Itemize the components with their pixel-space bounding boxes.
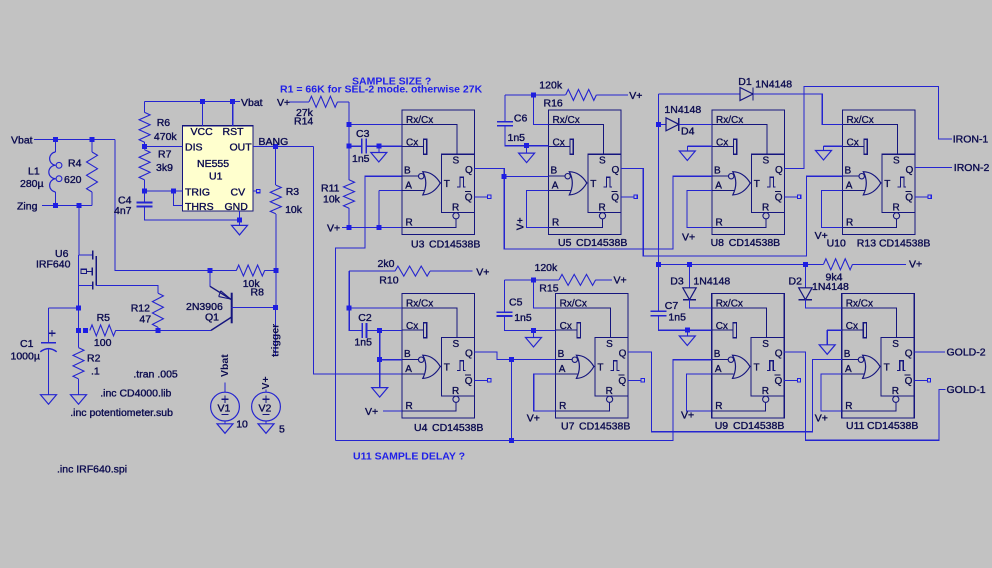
svg-text:V+: V+ [682, 232, 695, 244]
wire U3 RxCx pin [349, 123, 402, 125]
wire U6 source stub [79, 284, 93, 286]
ground (U11 Cx) [827, 329, 842, 331]
svg-text:trigger: trigger [270, 324, 282, 357]
diode D4 1N4148 [656, 122, 661, 127]
svg-text:U7: U7 [561, 421, 575, 433]
wire U3 A to V+ [378, 190, 380, 227]
svg-text:V+: V+ [909, 259, 922, 271]
svg-text:C6: C6 [514, 113, 528, 125]
svg-text:R14: R14 [294, 116, 313, 128]
ground (555 GND) [232, 225, 248, 235]
capacitor C5 1n5 [504, 279, 533, 281]
wire U3 B input route [335, 176, 402, 440]
wire Zing node [42, 205, 92, 207]
wire Vbat top rail [145, 101, 240, 103]
wire rail U4.Q to U9.B [335, 360, 711, 441]
inductor L1 280u [55, 140, 57, 153]
ground (C7) [679, 336, 695, 346]
wire V2 top stub [265, 390, 267, 393]
wire U6 source down [78, 285, 80, 330]
capacitor C2 1n5 [349, 308, 362, 330]
svg-text:280µ: 280µ [20, 178, 44, 190]
wire U9 Cx pin [687, 329, 711, 331]
svg-text:Vbat: Vbat [11, 135, 33, 147]
wire U3.Q to U5.B and U8.B [475, 169, 713, 249]
capacitor C4 4n7 [144, 191, 146, 202]
wire to Q1 collector [158, 329, 211, 331]
wire U10 A/R loop (V+) [822, 190, 843, 227]
svg-text:V+: V+ [476, 267, 489, 279]
node junction R15/C5/RxCx U7 [531, 277, 536, 282]
wire C4 bottom to GND pin [145, 207, 240, 221]
ground (R2) [71, 395, 87, 405]
svg-text:GOLD-2: GOLD-2 [947, 347, 986, 359]
svg-text:U1: U1 [209, 171, 223, 183]
node junction GND [237, 218, 242, 223]
svg-text:47: 47 [139, 314, 151, 326]
svg-text:.1: .1 [91, 366, 100, 378]
svg-text:V+: V+ [327, 223, 340, 235]
svg-text:100: 100 [94, 337, 112, 349]
wire BANG to U4.A [314, 146, 403, 374]
svg-text:R15: R15 [539, 283, 558, 295]
svg-text:D1: D1 [738, 76, 752, 88]
wire R14 to V+ rail vertical [348, 102, 350, 180]
resistor R11 10k [344, 180, 355, 208]
node junction R16/C6/RxCx U5 [531, 92, 536, 97]
wire D1 to U10 RxCx [753, 94, 843, 124]
diode D1 1N4148 [659, 93, 741, 95]
resistor R7 3k9 [144, 147, 146, 150]
capacitor C3 1n5 [347, 144, 352, 149]
diode D2 1N4148 [803, 262, 808, 267]
svg-text:CD14538B: CD14538B [729, 237, 780, 249]
svg-text:BANG: BANG [259, 136, 289, 148]
node junction Vbat/L1 [53, 137, 58, 142]
ground (U4 B node) [372, 388, 388, 398]
svg-text:CD14538B: CD14538B [432, 422, 483, 434]
svg-text:THRS: THRS [185, 201, 214, 213]
svg-text:.inc potentiometer.sub: .inc potentiometer.sub [70, 407, 173, 419]
ground (V2) [258, 424, 274, 434]
svg-text:4n7: 4n7 [114, 205, 132, 217]
wire Zing to U6 drain [79, 206, 92, 255]
pin CV stub [253, 190, 257, 192]
svg-text:CD14538B: CD14538B [733, 420, 784, 432]
node junction DIS/R6/R7 [142, 144, 147, 149]
ground (C6) [519, 153, 535, 163]
svg-text:R5: R5 [97, 312, 111, 324]
svg-text:2k0: 2k0 [378, 258, 395, 270]
ground (U10 Cx) [824, 145, 843, 147]
wire U5.Q to U10.B [621, 169, 843, 256]
svg-text:V+: V+ [260, 376, 272, 389]
svg-text:U10: U10 [827, 238, 846, 250]
svg-text:V+: V+ [527, 413, 540, 425]
svg-text:V+: V+ [614, 275, 627, 287]
svg-text:1N4148: 1N4148 [812, 281, 849, 293]
svg-text:NE555: NE555 [197, 158, 229, 170]
resistor R4 620 [91, 140, 93, 153]
svg-text:V+: V+ [681, 410, 694, 422]
wire U3 Cx pin [379, 145, 402, 147]
svg-text:R4: R4 [68, 158, 82, 170]
IC U1 NE555 timer [183, 126, 254, 211]
node junction R8/R3/trigger [274, 268, 279, 273]
ground (V1) [217, 424, 233, 434]
svg-text:3k9: 3k9 [156, 162, 173, 174]
wire U5 A/R loop (V+) [526, 190, 548, 227]
node junction C2/Cx/B U4 [377, 328, 382, 333]
monostable U10 CD14538B (R13) [843, 110, 932, 235]
node junction BANG/R3 [273, 144, 278, 149]
svg-text:CD14538B: CD14538B [579, 421, 630, 433]
node junction RxCx U3 [347, 122, 352, 127]
svg-text:IRF640: IRF640 [36, 259, 71, 271]
wire diode-common net vertical [658, 94, 660, 264]
wire C2 node to gnd [379, 330, 381, 387]
svg-text:V+: V+ [815, 230, 828, 242]
wire U3 A pin [379, 189, 402, 191]
svg-text:DIS: DIS [185, 142, 203, 154]
monostable U8 CD14538B [712, 110, 801, 235]
monostable U5 CD14538B [549, 110, 638, 235]
wire U6 gate to R12 [96, 285, 158, 293]
svg-text:Vbat: Vbat [219, 354, 231, 377]
node junction RST [230, 99, 235, 104]
svg-text:C1: C1 [20, 338, 34, 350]
wire V+ stub U4.R [383, 410, 402, 412]
wire RST pin [232, 102, 234, 126]
svg-text:1N4148: 1N4148 [693, 276, 730, 288]
svg-text:C3: C3 [356, 128, 370, 140]
node junction VCC [200, 99, 205, 104]
voltage source V1 (Vbat, 10V) [211, 392, 240, 421]
svg-text:R2: R2 [87, 353, 101, 365]
svg-text:10k: 10k [285, 204, 303, 216]
wire U6 left rail [78, 255, 80, 286]
ground (C5) [526, 338, 542, 348]
svg-text:R13 CD14538B: R13 CD14538B [857, 238, 931, 250]
wire to C1 [49, 307, 79, 309]
svg-text:GOLD-1: GOLD-1 [947, 384, 986, 396]
capacitor C1 1000u [48, 308, 50, 343]
svg-text:R8: R8 [251, 287, 265, 299]
svg-text:1n5: 1n5 [514, 312, 532, 324]
svg-text:V+: V+ [365, 406, 378, 418]
svg-text:V1: V1 [218, 403, 231, 415]
capacitor C6 1n5 [505, 94, 534, 96]
svg-text:U8: U8 [711, 237, 725, 249]
svg-text:R6: R6 [157, 117, 171, 129]
svg-text:RST: RST [223, 126, 245, 138]
wire U11.Q to GOLD-2 [914, 351, 945, 353]
svg-text:R16: R16 [544, 97, 563, 109]
wire Vbat to Q1 emitter / R8 [115, 140, 210, 271]
node junction TRIG/R7/C4 [142, 189, 147, 194]
svg-text:VCC: VCC [191, 126, 214, 138]
wire U8 A/R loop (V+) [687, 190, 712, 227]
svg-text:10: 10 [236, 419, 248, 431]
wire U9.Q to GOLD-1 [784, 352, 945, 440]
svg-text:1n5: 1n5 [354, 337, 372, 349]
wire U11 A/R loop (V+) [821, 374, 842, 411]
wire OUT / BANG net [253, 145, 314, 147]
ground (C3) [371, 153, 387, 163]
node junction C7/gnd/Cx U9 [685, 328, 690, 333]
resistor R8 10k [208, 268, 213, 273]
svg-text:5: 5 [279, 424, 285, 436]
resistor R14 27k [289, 101, 309, 103]
monostable U3 CD14538B [402, 110, 491, 235]
svg-text:1N4148: 1N4148 [664, 104, 701, 116]
wire U7 Cx pin [534, 329, 556, 331]
svg-text:D4: D4 [681, 126, 695, 138]
svg-text:CD14538B: CD14538B [576, 237, 627, 249]
svg-text:1N4148: 1N4148 [755, 79, 792, 91]
svg-text:R7: R7 [158, 149, 172, 161]
svg-text:Q1: Q1 [205, 312, 219, 324]
svg-text:.inc IRF640.spi: .inc IRF640.spi [57, 464, 127, 476]
svg-text:V2: V2 [259, 403, 272, 415]
wire trigger node vertical [275, 271, 277, 308]
wire V1 top stub [224, 383, 226, 393]
node junction source/C1 [76, 306, 81, 311]
svg-text:620: 620 [64, 174, 82, 186]
resistor R13? no: resistor 9k4 [824, 259, 853, 270]
resistor R10 2k0 [348, 271, 350, 308]
svg-text:Zing: Zing [17, 201, 38, 213]
wire VCC pin [202, 102, 204, 126]
wire drop to rail [510, 360, 512, 441]
svg-text:1n5: 1n5 [668, 312, 686, 324]
wire U5 RxCx pin [534, 95, 549, 124]
wire U10.Q to IRON-2 [915, 167, 952, 169]
svg-text:1n5: 1n5 [352, 153, 370, 165]
monostable U7 CD14538B [556, 294, 645, 419]
node junction R12/R5/collector [155, 328, 160, 333]
wire U4 RxCx pin [349, 307, 402, 309]
svg-text:GND: GND [225, 201, 249, 213]
svg-text:120k: 120k [535, 262, 559, 274]
svg-text:IRON-2: IRON-2 [954, 162, 990, 174]
svg-text:D2: D2 [789, 276, 803, 288]
wire U4 Cx pin [380, 329, 402, 331]
wire U7 RxCx pin [534, 280, 556, 308]
wire U5 Cx pin [527, 145, 549, 147]
svg-text:CD14538B: CD14538B [867, 420, 918, 432]
svg-text:R3: R3 [286, 186, 300, 198]
monostable U9 CD14538B [712, 294, 801, 419]
wire THRS pin [174, 191, 183, 206]
wire V+ rail U3 [342, 227, 402, 229]
wire R5 to R12/collector [116, 329, 158, 331]
wire DIS pin [145, 146, 183, 148]
node junction rail [509, 438, 514, 443]
svg-text:V+: V+ [277, 97, 290, 109]
node junction C6/gnd/Cx U5 [524, 143, 529, 148]
resistor R6 470k [144, 102, 146, 113]
diode D3 1N4148 [687, 262, 692, 267]
svg-text:R1 = 66K for SEL-2 mode. other: R1 = 66K for SEL-2 mode. otherwise 27K [280, 84, 483, 96]
node junction source/R5/R2 [76, 328, 81, 333]
wire common rail [659, 263, 824, 265]
resistor R5 100 [90, 325, 116, 336]
node junction U4.B [377, 357, 382, 362]
svg-text:L1: L1 [28, 166, 40, 178]
svg-text:V+: V+ [629, 90, 642, 102]
wire trigger stub + rotated label [275, 308, 277, 356]
svg-text:R10: R10 [379, 275, 398, 287]
node junction Vbat/R4 [90, 137, 95, 142]
wire U7 A/R loop (V+) [534, 374, 556, 411]
svg-text:U5: U5 [558, 237, 572, 249]
svg-text:Vbat: Vbat [241, 97, 263, 109]
wire Vbat rail left [34, 139, 115, 141]
resistor R2 .1 [73, 348, 84, 379]
wire TRIG pin [145, 190, 183, 192]
svg-text:U9: U9 [715, 420, 729, 432]
node junction U3.Q fanout [502, 174, 507, 179]
node junction C3/gnd/Cx [376, 144, 381, 149]
capacitor C7 1n5 [658, 264, 660, 311]
wire emitter drop [209, 271, 211, 287]
resistor R3 10k [275, 146, 277, 185]
monostable U4 CD14538B [402, 294, 491, 419]
wire U7.Q to U11.B [628, 352, 842, 432]
wire U8.Q to IRON-1 [785, 87, 953, 169]
svg-text:1n5: 1n5 [508, 132, 526, 144]
node junction TRIG/THRS [171, 189, 176, 194]
svg-text:C2: C2 [358, 312, 372, 324]
svg-text:V+: V+ [515, 217, 527, 230]
wire to U5.B [504, 175, 548, 177]
svg-text:10k: 10k [323, 194, 341, 206]
monostable U11 CD14538B [842, 294, 931, 419]
svg-text:OUT: OUT [230, 142, 253, 154]
svg-text:C5: C5 [509, 297, 523, 309]
wire U4.Q to U7.B / rail to U9.B and U3.B [475, 352, 512, 360]
wire to U7.B [511, 359, 555, 361]
ground (C1) [41, 395, 57, 405]
svg-text:C7: C7 [665, 300, 679, 312]
svg-text:.inc CD4000.lib: .inc CD4000.lib [100, 387, 171, 399]
resistor R12 47 [152, 293, 163, 327]
svg-text:U3: U3 [411, 239, 425, 251]
wire U4 B pin [380, 359, 402, 361]
node junction base/trigger [273, 305, 278, 310]
voltage source V2 (V+, 5V) [252, 392, 281, 421]
svg-text:CV: CV [231, 187, 246, 199]
svg-text:IRON-1: IRON-1 [953, 133, 989, 145]
svg-text:D3: D3 [670, 276, 684, 288]
svg-text:U11 SAMPLE DELAY ?: U11 SAMPLE DELAY ? [353, 451, 465, 463]
svg-text:TRIG: TRIG [185, 187, 210, 199]
transistor U6 IRF640 MOSFET [81, 251, 96, 290]
svg-text:U11: U11 [846, 420, 865, 432]
ground (U8 Cx) [687, 145, 712, 147]
svg-text:470k: 470k [154, 131, 178, 143]
node junction U4.Q fanout [509, 357, 514, 362]
wire U9 A/R loop (V+) [687, 374, 712, 411]
wire Q1 base to trigger node [232, 307, 276, 309]
svg-text:1000µ: 1000µ [11, 350, 40, 362]
svg-text:.tran .005: .tran .005 [133, 368, 178, 380]
node junction R10/C2/RxCx U4 [347, 306, 352, 311]
svg-text:CD14538B: CD14538B [429, 239, 480, 251]
svg-text:U4: U4 [414, 422, 428, 434]
node junction C5/gnd/Cx U7 [531, 328, 536, 333]
svg-text:V+: V+ [815, 413, 828, 425]
wire GND pin [239, 211, 241, 220]
svg-text:120k: 120k [539, 79, 563, 91]
